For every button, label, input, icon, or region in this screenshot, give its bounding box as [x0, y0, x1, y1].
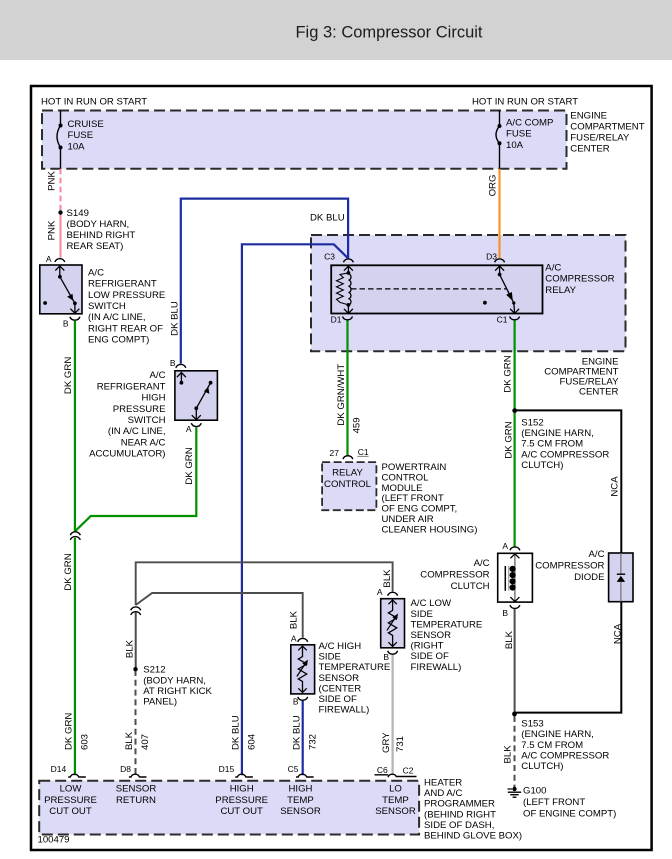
- svg-text:A: A: [502, 541, 508, 551]
- svg-text:CENTER: CENTER: [579, 386, 619, 397]
- svg-text:D15: D15: [219, 764, 235, 774]
- svg-text:732: 732: [307, 734, 318, 750]
- svg-text:BLK: BLK: [504, 630, 515, 649]
- svg-text:NEAR A/C: NEAR A/C: [121, 437, 166, 448]
- svg-text:A/C COMP: A/C COMP: [506, 118, 553, 129]
- svg-text:C1: C1: [358, 447, 369, 457]
- svg-text:SIDE: SIDE: [411, 609, 433, 620]
- svg-text:RELAY: RELAY: [332, 468, 363, 479]
- svg-text:HEATER: HEATER: [424, 778, 462, 789]
- svg-text:D8: D8: [120, 764, 131, 774]
- svg-text:DK GRN: DK GRN: [63, 357, 74, 394]
- svg-text:HIGH: HIGH: [142, 393, 166, 404]
- svg-text:DIODE: DIODE: [574, 572, 604, 583]
- svg-text:(LEFT FRONT: (LEFT FRONT: [523, 797, 585, 808]
- svg-text:(ENGINE HARN,: (ENGINE HARN,: [521, 428, 594, 439]
- svg-text:Fig 3: Compressor Circuit: Fig 3: Compressor Circuit: [295, 24, 482, 42]
- svg-text:OF ENG COMPT,: OF ENG COMPT,: [382, 504, 458, 515]
- svg-text:REFRIGERANT: REFRIGERANT: [88, 279, 157, 290]
- svg-text:BLK: BLK: [289, 610, 300, 629]
- svg-text:FIREWALL): FIREWALL): [411, 662, 462, 673]
- svg-text:COMPRESSOR: COMPRESSOR: [535, 561, 604, 572]
- svg-text:PRESSURE: PRESSURE: [44, 795, 97, 806]
- svg-text:TEMPERATURE: TEMPERATURE: [411, 619, 483, 630]
- svg-text:S212: S212: [143, 665, 165, 676]
- svg-text:RIGHT REAR OF: RIGHT REAR OF: [88, 323, 163, 334]
- svg-text:CLUTCH: CLUTCH: [451, 581, 490, 592]
- svg-text:CLEANER HOUSING): CLEANER HOUSING): [382, 524, 478, 535]
- svg-text:7.5 CM FROM: 7.5 CM FROM: [521, 740, 583, 751]
- svg-text:FUSE/RELAY: FUSE/RELAY: [570, 133, 630, 144]
- svg-text:459: 459: [352, 417, 363, 433]
- svg-text:COMPRESSOR: COMPRESSOR: [545, 274, 614, 285]
- svg-text:D14: D14: [51, 764, 67, 774]
- svg-text:DK GRN: DK GRN: [63, 713, 74, 750]
- svg-text:SIDE OF: SIDE OF: [319, 694, 358, 705]
- svg-text:B: B: [502, 608, 508, 618]
- svg-text:A/C: A/C: [150, 370, 166, 381]
- svg-text:S149: S149: [67, 208, 89, 219]
- svg-text:A/C LOW: A/C LOW: [411, 598, 452, 609]
- svg-text:CRUISE: CRUISE: [68, 119, 104, 130]
- svg-text:A/C HIGH: A/C HIGH: [319, 641, 362, 652]
- svg-text:DK GRN: DK GRN: [184, 447, 195, 484]
- svg-text:DK GRN: DK GRN: [503, 355, 514, 392]
- svg-text:C1: C1: [497, 315, 508, 325]
- svg-text:407: 407: [140, 734, 151, 750]
- svg-text:PANEL): PANEL): [143, 697, 177, 708]
- svg-text:DK BLU: DK BLU: [310, 213, 345, 224]
- svg-text:A: A: [377, 587, 383, 597]
- svg-text:NCA: NCA: [613, 623, 624, 644]
- svg-text:(IN A/C LINE,: (IN A/C LINE,: [108, 426, 166, 437]
- svg-text:731: 731: [395, 736, 406, 752]
- svg-text:COMPRESSOR: COMPRESSOR: [420, 570, 489, 581]
- svg-text:CONTROL: CONTROL: [382, 472, 430, 483]
- svg-text:MODULE: MODULE: [382, 483, 423, 494]
- svg-text:UNDER AIR: UNDER AIR: [382, 514, 434, 525]
- svg-text:TEMP: TEMP: [287, 795, 314, 806]
- svg-text:DK BLU: DK BLU: [231, 715, 242, 750]
- svg-text:SENSOR: SENSOR: [319, 673, 360, 684]
- svg-text:DK BLU: DK BLU: [291, 715, 302, 750]
- svg-text:SWITCH: SWITCH: [88, 301, 126, 312]
- svg-text:CLUTCH): CLUTCH): [521, 761, 563, 772]
- svg-text:HIGH: HIGH: [230, 784, 254, 795]
- svg-text:604: 604: [247, 733, 258, 750]
- svg-text:CUT OUT: CUT OUT: [49, 806, 92, 817]
- svg-text:CONTROL: CONTROL: [324, 479, 372, 490]
- svg-text:BEHIND GLOVE BOX): BEHIND GLOVE BOX): [424, 831, 522, 842]
- svg-text:(RIGHT: (RIGHT: [411, 641, 444, 652]
- svg-text:LOW PRESSURE: LOW PRESSURE: [88, 290, 165, 301]
- svg-text:B: B: [383, 652, 389, 662]
- svg-text:A/C: A/C: [545, 262, 561, 273]
- svg-text:A: A: [186, 424, 192, 434]
- svg-text:SENSOR: SENSOR: [280, 806, 321, 817]
- svg-text:LO: LO: [389, 784, 402, 795]
- svg-text:TEMPERATURE: TEMPERATURE: [319, 662, 391, 673]
- svg-text:FUSE: FUSE: [506, 129, 532, 140]
- svg-text:SENSOR: SENSOR: [411, 630, 452, 641]
- svg-text:B: B: [293, 697, 299, 707]
- svg-text:RELAY: RELAY: [545, 285, 576, 296]
- svg-text:POWERTRAIN: POWERTRAIN: [382, 462, 447, 473]
- svg-text:10A: 10A: [506, 140, 524, 151]
- svg-text:BLK: BLK: [124, 731, 135, 750]
- svg-text:ENGINE: ENGINE: [570, 111, 607, 122]
- svg-text:ENG COMPT): ENG COMPT): [88, 335, 149, 346]
- svg-text:PNK: PNK: [47, 171, 58, 191]
- svg-text:C2: C2: [403, 766, 414, 776]
- svg-text:D3: D3: [486, 252, 497, 262]
- svg-text:TEMP: TEMP: [382, 795, 409, 806]
- svg-text:7.5 CM FROM: 7.5 CM FROM: [521, 439, 583, 450]
- svg-text:BLK: BLK: [382, 569, 393, 588]
- svg-text:G100: G100: [523, 786, 546, 797]
- svg-text:DK GRN: DK GRN: [504, 421, 515, 458]
- svg-text:27: 27: [330, 448, 340, 458]
- svg-text:SWITCH: SWITCH: [128, 415, 166, 426]
- svg-text:B: B: [170, 358, 176, 368]
- svg-text:HOT IN RUN OR START: HOT IN RUN OR START: [472, 97, 578, 108]
- svg-text:(BEHIND RIGHT: (BEHIND RIGHT: [424, 809, 496, 820]
- svg-text:REAR SEAT): REAR SEAT): [67, 241, 124, 252]
- svg-text:AT RIGHT KICK: AT RIGHT KICK: [143, 686, 212, 697]
- svg-text:A: A: [46, 254, 52, 264]
- svg-text:A/C COMPRESSOR: A/C COMPRESSOR: [521, 750, 609, 761]
- svg-text:HOT IN RUN OR START: HOT IN RUN OR START: [41, 97, 147, 108]
- svg-text:A/C COMPRESSOR: A/C COMPRESSOR: [521, 449, 609, 460]
- svg-text:SIDE: SIDE: [319, 652, 341, 663]
- svg-text:AND A/C: AND A/C: [424, 788, 462, 799]
- svg-text:DK GRN: DK GRN: [63, 553, 74, 590]
- svg-text:ORG: ORG: [488, 175, 499, 197]
- svg-text:CENTER: CENTER: [570, 143, 610, 154]
- svg-text:603: 603: [79, 734, 90, 750]
- svg-text:COMPARTMENT: COMPARTMENT: [570, 122, 644, 133]
- svg-text:(BODY HARN,: (BODY HARN,: [67, 219, 130, 230]
- svg-text:B: B: [63, 319, 69, 329]
- svg-text:LOW: LOW: [60, 784, 83, 795]
- svg-text:GRY: GRY: [381, 732, 392, 753]
- svg-text:S153: S153: [521, 719, 543, 730]
- svg-text:(ENGINE HARN,: (ENGINE HARN,: [521, 729, 594, 740]
- svg-text:C6: C6: [377, 765, 388, 775]
- svg-text:A/C: A/C: [589, 549, 605, 560]
- svg-text:CUT OUT: CUT OUT: [220, 806, 263, 817]
- svg-text:10A: 10A: [68, 141, 86, 152]
- svg-text:A/C: A/C: [474, 558, 490, 569]
- svg-text:DK BLU: DK BLU: [169, 301, 180, 336]
- svg-text:BLK: BLK: [124, 639, 135, 658]
- svg-text:PRESSURE: PRESSURE: [215, 795, 268, 806]
- svg-text:(LEFT FRONT: (LEFT FRONT: [382, 493, 444, 504]
- svg-text:RETURN: RETURN: [116, 795, 156, 806]
- svg-text:BLK: BLK: [502, 745, 513, 764]
- svg-text:ACCUMULATOR): ACCUMULATOR): [89, 449, 165, 460]
- svg-text:REFRIGERANT: REFRIGERANT: [97, 381, 166, 392]
- svg-text:(IN A/C LINE,: (IN A/C LINE,: [88, 312, 146, 323]
- svg-text:(BODY HARN,: (BODY HARN,: [143, 675, 206, 686]
- svg-text:D1: D1: [331, 315, 342, 325]
- svg-text:SENSOR: SENSOR: [375, 806, 416, 817]
- svg-text:NCA: NCA: [610, 476, 621, 497]
- svg-text:HIGH: HIGH: [289, 784, 313, 795]
- svg-text:BEHIND RIGHT: BEHIND RIGHT: [67, 230, 136, 241]
- svg-text:CLUTCH): CLUTCH): [521, 460, 563, 471]
- svg-text:SIDE OF: SIDE OF: [411, 651, 450, 662]
- svg-text:OF ENGINE COMPT): OF ENGINE COMPT): [523, 809, 616, 820]
- svg-text:FIREWALL): FIREWALL): [319, 705, 370, 716]
- svg-text:PNK: PNK: [47, 220, 58, 240]
- svg-text:C3: C3: [324, 252, 335, 262]
- svg-text:C5: C5: [288, 764, 299, 774]
- svg-text:(CENTER: (CENTER: [319, 683, 362, 694]
- svg-text:PROGRAMMER: PROGRAMMER: [424, 799, 495, 810]
- svg-text:S152: S152: [521, 418, 543, 429]
- svg-text:SENSOR: SENSOR: [116, 784, 157, 795]
- svg-text:100479: 100479: [38, 835, 70, 846]
- svg-text:FUSE: FUSE: [68, 130, 94, 141]
- svg-text:DK GRN/WHT: DK GRN/WHT: [336, 364, 347, 426]
- svg-text:A/C: A/C: [88, 267, 104, 278]
- svg-text:SIDE OF DASH,: SIDE OF DASH,: [424, 820, 494, 831]
- svg-text:A: A: [291, 634, 297, 644]
- svg-text:PRESSURE: PRESSURE: [113, 404, 166, 415]
